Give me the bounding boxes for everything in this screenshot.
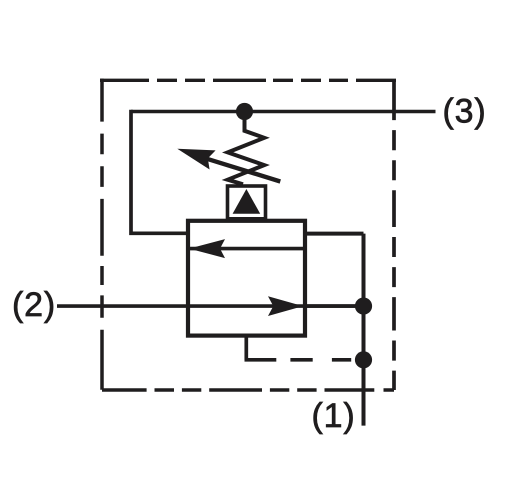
svg-text:(2): (2) (12, 286, 56, 324)
svg-text:(1): (1) (312, 397, 356, 435)
svg-text:(3): (3) (443, 93, 487, 131)
